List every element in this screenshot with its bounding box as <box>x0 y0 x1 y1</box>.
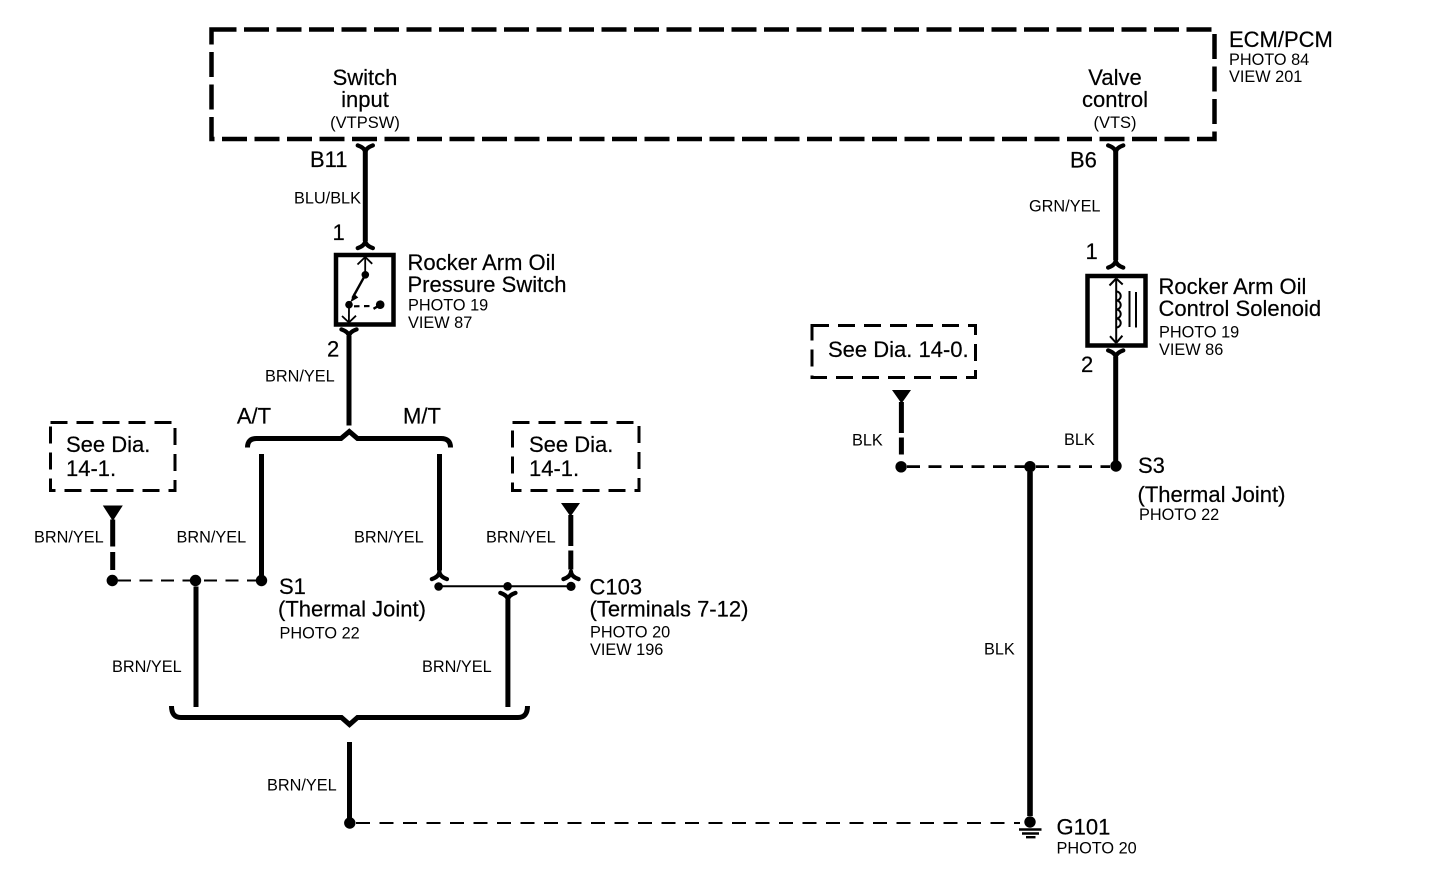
svg-text:PHOTO 84: PHOTO 84 <box>1229 51 1309 69</box>
svg-text:See Dia.: See Dia. <box>529 432 613 457</box>
wire BLK from solenoid pin 2 to S3 <box>1113 357 1118 461</box>
wire BRN/YEL from C103 junction down to lower brace <box>505 600 510 708</box>
svg-text:Control Solenoid: Control Solenoid <box>1159 296 1322 321</box>
svg-text:VIEW 201: VIEW 201 <box>1229 68 1302 86</box>
svg-text:PHOTO 22: PHOTO 22 <box>1139 506 1219 524</box>
svg-text:S1: S1 <box>279 574 306 599</box>
node dot at C103 <box>566 582 575 591</box>
solenoid L1 box <box>1088 276 1146 346</box>
svg-text:1: 1 <box>333 220 345 245</box>
dashed wire from See Dia. 14-0. arrow to S3 joint <box>899 402 904 461</box>
wire A/T branch BRN/YEL <box>259 454 264 577</box>
node dot middle at S3 <box>1024 461 1035 472</box>
See Dia. 14-1. reference box (left) <box>51 423 176 491</box>
connector fork above C103 node <box>563 572 578 580</box>
node dot at bottom left <box>344 817 355 828</box>
ground G101 symbol <box>1019 816 1042 837</box>
connector fork at ECM pin B6 <box>1108 145 1123 153</box>
label: S3 (Thermal Joint) PHOTO 22 <box>1138 453 1286 524</box>
svg-text:VIEW 196: VIEW 196 <box>590 641 663 659</box>
svg-text:PHOTO 20: PHOTO 20 <box>590 624 670 642</box>
node dot below See Dia. 14-0. <box>895 461 906 472</box>
svg-text:PHOTO 19: PHOTO 19 <box>408 297 488 315</box>
svg-text:14-1.: 14-1. <box>529 456 579 481</box>
split brace (A/T - M/T) <box>248 432 451 448</box>
solenoid internal symbol (coil) <box>1110 279 1137 344</box>
ECM/PCM dashed box U1 <box>212 30 1215 140</box>
node S1 dot <box>256 575 267 586</box>
See Dia. 14-0. reference box <box>812 326 976 378</box>
svg-text:G101: G101 <box>1057 815 1111 840</box>
svg-text:BRN/YEL: BRN/YEL <box>267 777 337 795</box>
svg-text:BLK: BLK <box>1064 431 1095 449</box>
svg-text:14-1.: 14-1. <box>66 456 116 481</box>
node dot left of S1 <box>107 575 118 586</box>
connector fork below C103 line <box>500 593 515 601</box>
svg-text:(Terminals 7-12): (Terminals 7-12) <box>590 597 749 622</box>
arrow from See Dia. 14-0. box <box>892 390 911 404</box>
connector fork at M/T branch bottom <box>432 572 447 580</box>
svg-text:BLU/BLK: BLU/BLK <box>294 190 361 208</box>
wire M/T branch BRN/YEL <box>437 454 442 571</box>
svg-text:2: 2 <box>327 337 339 362</box>
svg-text:BRN/YEL: BRN/YEL <box>265 368 335 386</box>
svg-text:(Thermal Joint): (Thermal Joint) <box>278 597 426 622</box>
dashed joint wire to G101 <box>356 822 1020 824</box>
connector fork at solenoid pin 1 <box>1108 260 1123 268</box>
wire BRN/YEL from switch pin 2 down to A/T-M/T split <box>347 336 352 426</box>
svg-text:A/T: A/T <box>237 404 271 429</box>
svg-text:PHOTO 22: PHOTO 22 <box>280 625 360 643</box>
thin joint wire to C103 <box>439 585 571 587</box>
svg-text:BRN/YEL: BRN/YEL <box>112 658 182 676</box>
wire BLK from S3 middle node down to G101 <box>1027 472 1033 816</box>
pressure switch internal symbol <box>342 257 385 323</box>
svg-text:control: control <box>1082 87 1148 112</box>
svg-text:(VTS): (VTS) <box>1093 114 1136 132</box>
connector fork at ECM pin B11 <box>358 145 373 153</box>
node dot at C103 line middle <box>503 582 512 591</box>
wire BRN/YEL from S1 middle node down to lower brace <box>194 587 199 708</box>
svg-text:BRN/YEL: BRN/YEL <box>422 658 492 676</box>
label: G101 PHOTO 20 <box>1057 815 1137 858</box>
svg-text:2: 2 <box>1081 352 1093 377</box>
svg-text:S3: S3 <box>1138 453 1165 478</box>
svg-text:(Thermal Joint): (Thermal Joint) <box>1138 482 1286 507</box>
svg-text:GRN/YEL: GRN/YEL <box>1029 198 1100 216</box>
svg-text:1: 1 <box>1086 239 1098 264</box>
pressure switch S/W box <box>336 255 394 325</box>
connector fork at switch pin 2 <box>341 329 356 337</box>
svg-text:VIEW 87: VIEW 87 <box>408 314 472 332</box>
arrow from left See Dia. box <box>103 506 123 522</box>
node dot at C103 line left <box>434 582 443 591</box>
wire BRN/YEL from brace to ground line <box>347 742 352 818</box>
svg-text:PHOTO 20: PHOTO 20 <box>1057 840 1137 858</box>
label: C103 (Terminals 7-12) PHOTO 20 VIEW 196 <box>590 575 749 660</box>
merge brace at bottom <box>172 706 528 725</box>
node dot middle at S1 <box>190 575 201 586</box>
connector fork at switch pin 1 <box>358 241 373 249</box>
svg-text:B6: B6 <box>1070 148 1097 173</box>
wire BLU/BLK from B11 to switch pin 1 <box>363 151 368 241</box>
svg-text:PHOTO 19: PHOTO 19 <box>1159 324 1239 342</box>
svg-text:VIEW 86: VIEW 86 <box>1159 341 1223 359</box>
svg-text:BLK: BLK <box>852 432 883 450</box>
wire GRN/YEL from B6 to solenoid pin 1 <box>1113 151 1118 260</box>
label: Rocker Arm Oil Control Solenoid PHOTO 19 VIEW 86 <box>1159 274 1322 359</box>
dashed wire from left See Dia. arrow to S1 <box>110 520 115 574</box>
svg-text:BRN/YEL: BRN/YEL <box>354 529 424 547</box>
connector fork at solenoid pin 2 <box>1108 350 1123 358</box>
node S3 dot <box>1110 460 1121 471</box>
svg-text:See Dia. 14-0.: See Dia. 14-0. <box>828 337 969 362</box>
svg-text:BLK: BLK <box>984 641 1015 659</box>
label: ECM/PCM PHOTO 84 VIEW 201 <box>1229 27 1333 86</box>
svg-text:(VTPSW): (VTPSW) <box>330 114 400 132</box>
See Dia. 14-1. reference box (right) <box>513 423 640 491</box>
svg-text:Pressure Switch: Pressure Switch <box>408 272 567 297</box>
svg-text:BRN/YEL: BRN/YEL <box>177 529 247 547</box>
dashed wire from right See Dia. arrow to C103 <box>568 515 573 570</box>
arrow from right See Dia. box <box>561 503 580 517</box>
label: Switch input (VTPSW) pin function <box>330 65 400 132</box>
svg-text:B11: B11 <box>310 147 348 172</box>
dashed joint wire at S1 <box>118 580 256 582</box>
label: Rocker Arm Oil Pressure Switch PHOTO 19 VIEW 87 <box>408 250 567 332</box>
dashed joint wire at S3 <box>907 465 1110 468</box>
label: S1 (Thermal Joint) PHOTO 22 <box>278 574 426 643</box>
svg-text:BRN/YEL: BRN/YEL <box>486 529 556 547</box>
svg-text:ECM/PCM: ECM/PCM <box>1229 27 1333 52</box>
svg-text:See Dia.: See Dia. <box>66 432 150 457</box>
svg-text:input: input <box>341 87 389 112</box>
svg-text:BRN/YEL: BRN/YEL <box>34 529 104 547</box>
svg-text:M/T: M/T <box>403 404 441 429</box>
label: Valve control (VTS) pin function <box>1082 65 1148 132</box>
